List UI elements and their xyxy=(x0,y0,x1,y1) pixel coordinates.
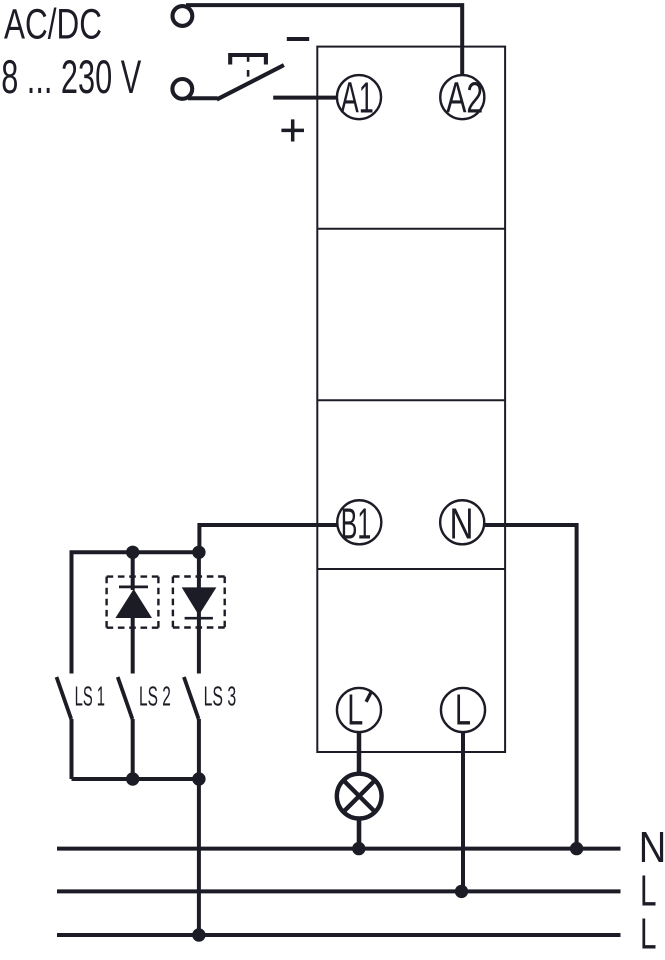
junction bottom bus at LS3 xyxy=(192,772,205,785)
diode V2 (triangle down) xyxy=(182,587,217,615)
svg-text:B1: B1 xyxy=(341,500,372,549)
diode V2 (cathode bar) xyxy=(185,617,213,620)
dashed box around diode V1 xyxy=(107,577,159,628)
svg-text:8 ... 230 V: 8 ... 230 V xyxy=(1,50,141,103)
push-button S1 dashed link xyxy=(247,57,250,78)
junction N line right xyxy=(570,842,583,855)
push-button S1 actuator bracket xyxy=(230,55,266,65)
junction N line at lamp xyxy=(352,842,365,855)
device box divider 1 xyxy=(317,228,505,230)
terminal L xyxy=(441,686,485,735)
switch LS1 lever xyxy=(57,677,72,719)
terminal B1 xyxy=(337,500,381,549)
terminal A1 xyxy=(337,74,381,123)
switch LS3 lever xyxy=(184,677,199,719)
wire switch contact to A1 xyxy=(273,96,337,100)
svg-text:A2: A2 xyxy=(446,74,483,123)
svg-text:L: L xyxy=(640,910,657,959)
dashed box around diode V2 xyxy=(173,577,225,628)
terminal circle supply top xyxy=(173,6,193,26)
mains line L middle xyxy=(57,889,621,893)
terminal L1 prime xyxy=(337,686,381,735)
device box divider 3 xyxy=(317,568,505,570)
diode V1 (cathode bar) xyxy=(119,586,148,589)
terminal N xyxy=(440,500,484,549)
svg-text:LS 2: LS 2 xyxy=(139,681,171,712)
wire L terminal to L line xyxy=(461,732,465,892)
switch LS2 lever xyxy=(118,677,133,719)
switch LS2 lower stub xyxy=(131,719,135,779)
svg-text:N: N xyxy=(639,823,665,872)
junction L line at lamp feed xyxy=(455,885,468,898)
svg-text:LS 3: LS 3 xyxy=(204,681,237,712)
svg-text:AC/DC: AC/DC xyxy=(4,1,102,48)
switch LS3 lower stub xyxy=(197,719,201,779)
wire L1 prime to lamp xyxy=(357,732,362,772)
wire B1 to left column xyxy=(199,525,337,553)
junction on bottom L line xyxy=(192,928,205,941)
junction bottom bus at LS2 xyxy=(126,772,139,785)
wire LS2 branch upper xyxy=(131,552,135,590)
push-button S1 lever xyxy=(217,65,284,99)
svg-text:L: L xyxy=(455,686,471,735)
lamp E1 xyxy=(337,774,382,819)
mains line N xyxy=(57,847,621,851)
terminal circle supply bottom xyxy=(172,79,192,99)
svg-text:L: L xyxy=(347,686,363,735)
wire LS3 branch upper xyxy=(197,552,201,621)
diode V1 (triangle up) xyxy=(115,589,152,618)
switch LS1 lower stub xyxy=(70,719,74,779)
label minus xyxy=(287,37,309,41)
wire lamp to N line xyxy=(357,820,362,849)
wire LS column down to L bottom line xyxy=(197,779,201,935)
wire supply top to A2 xyxy=(186,5,462,74)
device box divider 2 xyxy=(317,399,505,401)
device box xyxy=(317,47,505,752)
junction top bus at LS3 branch xyxy=(192,546,205,559)
label plus xyxy=(281,119,304,141)
svg-text:L: L xyxy=(640,866,657,915)
wire LS2 branch lower (diode to switch) xyxy=(131,616,135,674)
svg-text:A1: A1 xyxy=(341,74,374,123)
wire LS3 branch lower (diode to switch) xyxy=(197,621,201,674)
junction top bus at LS2 branch xyxy=(126,546,139,559)
terminal A2 xyxy=(440,74,484,123)
wire N terminal to N line xyxy=(484,525,577,849)
wire supply bottom to switch pivot xyxy=(188,96,218,100)
wire bottom bus of switch column xyxy=(72,777,199,781)
wire top bus of switch column xyxy=(72,552,200,673)
mains line L bottom xyxy=(57,933,621,937)
svg-text:N: N xyxy=(450,500,474,549)
svg-text:LS 1: LS 1 xyxy=(75,681,105,712)
